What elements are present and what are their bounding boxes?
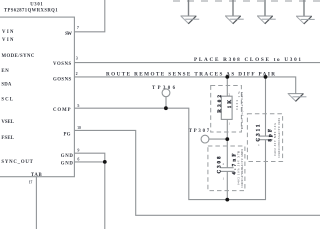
- svg-text:0402 10% 50V X7R: 0402 10% 50V X7R: [237, 151, 240, 185]
- svg-text:TAB: TAB: [31, 173, 43, 178]
- svg-text:GOSNS: GOSNS: [53, 77, 72, 82]
- svg-text:GND: GND: [61, 154, 74, 159]
- svg-text:1K: 1K: [228, 100, 233, 108]
- svg-text:PLACE R308 CLOSE to U301: PLACE R308 CLOSE to U301: [194, 57, 301, 63]
- svg-text:SCL: SCL: [1, 98, 13, 103]
- svg-text:VOSNS: VOSNS: [53, 62, 72, 67]
- svg-text:FSEL: FSEL: [1, 136, 14, 141]
- svg-text:TP307: TP307: [189, 129, 210, 134]
- svg-text:EN: EN: [1, 69, 9, 74]
- svg-text:Do not populate 0402: Do not populate 0402: [241, 91, 244, 129]
- svg-text:SDA: SDA: [1, 83, 12, 88]
- svg-text:5: 5: [78, 104, 80, 108]
- svg-text:MODE/SYNC: MODE/SYNC: [2, 54, 35, 59]
- svg-text:VIN: VIN: [2, 30, 14, 35]
- svg-text:0402 50V NP0 C0G: 0402 50V NP0 C0G: [274, 123, 277, 156]
- svg-text:9: 9: [78, 148, 80, 152]
- svg-text:7: 7: [77, 26, 79, 30]
- svg-text:VIN: VIN: [2, 38, 14, 43]
- svg-text:8pF: 8pF: [269, 129, 274, 142]
- svg-text:PG: PG: [64, 132, 71, 137]
- svg-text:U301: U301: [30, 3, 43, 8]
- svg-text:17: 17: [29, 180, 33, 184]
- svg-text:C0402C080C5GACTU 0402: C0402C080C5GACTU 0402: [278, 117, 281, 158]
- svg-text:2: 2: [76, 72, 78, 76]
- svg-text:COMP: COMP: [53, 108, 71, 113]
- svg-text:10: 10: [77, 126, 81, 130]
- svg-text:GND: GND: [61, 162, 74, 167]
- svg-text:VSEL: VSEL: [1, 120, 14, 125]
- svg-text:TPS62871QWRXSRQ1: TPS62871QWRXSRQ1: [4, 9, 58, 14]
- svg-text:SYNC_OUT: SYNC_OUT: [1, 160, 33, 165]
- svg-text:C0402C472K3RACTU GND2: C0402C472K3RACTU GND2: [241, 148, 244, 188]
- svg-text:SW: SW: [65, 32, 72, 37]
- svg-text:3: 3: [76, 57, 78, 61]
- svg-text:6: 6: [78, 157, 80, 161]
